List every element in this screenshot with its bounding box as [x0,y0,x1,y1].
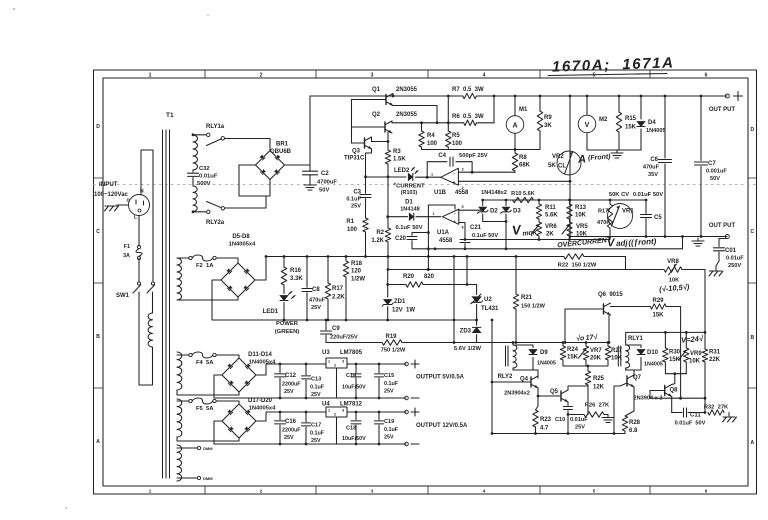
wire line y342 right [477,342,516,344]
svg-text:VR5: VR5 [576,224,588,230]
wire Q5 base [537,395,561,398]
label U3 [322,350,363,356]
wire R30 VR9 bottom [665,372,686,383]
junction dot rail y271 left [387,268,430,271]
label GBU6B [270,149,292,155]
wire Q6 collector line [611,306,651,308]
label M2 [599,117,608,123]
svg-text:(R103): (R103) [401,190,418,196]
svg-text:0.1uF 50V: 0.1uF 50V [472,233,498,239]
wire Q6 base line [564,309,604,344]
wire Q4 collector [533,370,538,378]
capacitor C17 [302,411,311,446]
svg-text:C2: C2 [321,171,329,177]
label LED1 [263,309,279,315]
capacitor C15 [375,363,384,400]
svg-text:CL: CL [558,164,566,170]
wire Q4 emitter down [536,388,539,410]
svg-text:√o 17√: √o 17√ [576,333,599,343]
svg-text:F4 5A: F4 5A [196,360,214,366]
T1 aux winding [177,258,182,300]
resistor R22 [564,254,584,259]
junction dot R8 bottom [0,0,1,1]
svg-text:C32: C32 [199,166,210,172]
junction dot U1B input node [426,176,429,179]
label 100-120Vac [94,192,129,198]
svg-text:4558: 4558 [439,238,453,244]
svg-text:R5: R5 [452,133,460,139]
label OUTPUT 5V [416,375,465,381]
svg-text:⌜CURRENT: ⌜CURRENT [393,183,425,190]
wire VR1 bottom [569,200,571,237]
wire plug to ground [117,204,129,206]
capacitor C01 [714,239,728,271]
svg-text:500V: 500V [197,181,211,187]
capacitor C13 [302,363,311,400]
label R11 [545,205,558,219]
label R26 27K [585,403,610,409]
wire 5V bridge left [214,375,406,398]
label VR2 5K [548,163,566,170]
wire C2 to top rail [309,96,311,165]
label R10 [511,191,535,197]
svg-text:ZD3: ZD3 [460,329,472,335]
svg-text:A: A [750,440,754,446]
resistor R30 [663,331,668,374]
label D9 [537,350,556,367]
svg-text:R18: R18 [351,261,363,267]
svg-text:(GREEN): (GREEN) [275,329,300,335]
label Q6 9015 [598,292,623,298]
T1 main secondary upper half [193,135,198,170]
label LED2 [394,168,410,174]
label INPUT [99,181,118,188]
wire Q5 collector [568,386,588,390]
svg-text:1N4148x2: 1N4148x2 [481,190,507,196]
label 3A [123,253,130,259]
svg-text:R10 5.6K: R10 5.6K [511,191,535,197]
svg-text:22K: 22K [709,357,721,363]
wire aux bridge right to rail [255,257,266,281]
ground below C2 [304,182,316,190]
svg-text:2N3055: 2N3055 [396,87,418,93]
wire 5V bridge right [256,364,326,375]
ground below M2 R15 D4 [611,150,623,158]
wire 12V bridge left [214,421,406,444]
resistor R11 [536,200,541,219]
svg-text:D1: D1 [405,200,413,206]
wire secondary mid section [192,170,194,186]
wire Q4 base [491,381,531,384]
label U1A [437,230,453,244]
svg-text:U1A: U1A [437,230,450,236]
capacitor C8 [302,255,312,320]
resistor R6 [464,120,477,125]
ammeter M1 [506,116,524,134]
wire BR1 right to C2 [285,164,311,166]
label RLY2a [206,220,225,226]
resistor R32 [708,410,724,415]
svg-text:D2: D2 [490,209,498,215]
label Q1 [372,87,418,93]
wire plug L down [138,216,140,246]
svg-text:1N4005x4: 1N4005x4 [249,360,277,366]
label C9 [330,326,358,341]
label 50K CV [609,192,629,198]
label R3 [393,149,406,163]
junction dots rail y256 [265,255,518,258]
junction dot R3 bottom [387,175,390,178]
junction dot x428 rail [427,255,430,271]
resistor R9 [537,95,542,150]
handwritten Vmark [511,220,538,239]
potentiometer VR1 with R17 [607,200,632,240]
label RLY1a [206,124,225,130]
vertical wire x454 [453,257,456,344]
svg-text:1: 1 [328,409,330,413]
svg-text:ZD1: ZD1 [394,299,406,305]
scan speck [13,8,209,508]
label 0.01uF 50V mid [633,192,663,198]
resistor R23 [533,410,538,434]
diode D1 [386,213,440,220]
svg-text:VR2: VR2 [552,154,564,160]
junction dots rail y249 [434,247,508,250]
capacitor C6 [659,95,672,237]
chassis ground below C01 [709,271,723,276]
svg-text:C16: C16 [285,419,297,425]
resistor R5 [446,123,451,150]
wire Q8 emitter line [650,397,706,400]
label R30 [669,350,681,364]
wire Q7 collector [626,370,634,377]
wire long rail y256 [266,256,626,258]
label M1 [519,107,528,113]
svg-text:220uF/25V: 220uF/25V [330,335,358,341]
svg-text:2N3055: 2N3055 [396,112,418,118]
resistor R7 [463,93,484,98]
capacitor C19 [375,411,384,446]
svg-text:50V: 50V [319,188,329,194]
capacitor C32 [188,173,199,176]
label C18 [342,426,366,443]
label C14 [342,373,366,391]
resistor R8 [512,150,517,173]
svg-text:12K: 12K [593,385,605,391]
resistor R20 [406,282,423,287]
label VR7 [590,348,602,362]
label Q3 [352,149,361,155]
wire U1B lower input line [458,180,571,183]
wire rail jog to y271 [625,257,627,270]
handwritten Vadj front [607,235,657,250]
svg-text:470uF: 470uF [309,298,326,304]
junction dot M1 bottom [514,148,517,151]
wire plug N up and over [141,150,153,281]
wire R24 VR7 R27 bottom [563,365,608,368]
svg-text:0.01uF: 0.01uF [570,417,588,423]
wire node line y200 [483,199,646,201]
svg-text:Q8: Q8 [670,388,679,394]
label R27 [611,348,623,362]
svg-text:5: 5 [462,205,464,209]
svg-text:4: 4 [483,73,486,79]
resistor R4 [419,123,424,150]
svg-text:4700uF: 4700uF [317,180,337,186]
wire C11 line [672,398,707,414]
wire negative rail y236 [570,236,727,238]
svg-text:C20: C20 [395,236,407,242]
title underline [548,74,667,76]
svg-text:R13: R13 [575,205,587,211]
label R16 [290,268,303,282]
svg-text:TIP31C: TIP31C [344,156,365,162]
label C16 [282,419,301,441]
potentiometer VR8 [664,264,682,275]
svg-text:R24: R24 [567,347,579,353]
chassis ground at plug [105,206,119,211]
capacitor C21 [460,240,470,249]
label R24 [567,347,579,361]
output terminal plus [725,94,729,98]
bridge rectifier BR1 [256,151,285,180]
svg-text:VR9: VR9 [690,351,702,357]
label D3 [513,209,521,215]
label Q2 [372,112,418,118]
label C19 [384,419,399,441]
wire primary bottom [139,347,153,385]
label C32 value [199,174,218,180]
vertical wire x467 to U2 [466,257,477,286]
wire RLY2 loop with D9 [512,341,533,370]
svg-text:Q2: Q2 [372,112,381,118]
label C01 [725,248,744,269]
svg-text:100: 100 [452,141,463,147]
switch SW1 pole 2 [147,282,155,293]
svg-text:POWER: POWER [276,321,299,327]
label C11 [675,413,706,427]
wire RLY1 loop with D10 [626,345,641,370]
svg-text:C10: C10 [555,417,565,423]
wire top positive rail [310,95,727,125]
svg-text:RLY2a: RLY2a [206,220,225,226]
transistor Q4 2N3904 [531,376,538,388]
svg-text:R17: R17 [598,209,608,215]
relay coil RLY2 [506,343,517,371]
svg-text:25V: 25V [575,425,585,431]
wire tap to RLY1a [193,134,206,136]
wire Q3 emitter down [366,149,372,177]
svg-text:U3: U3 [322,350,330,356]
svg-text:U4: U4 [322,402,330,408]
svg-text:6: 6 [705,73,708,79]
output terminal minus [725,235,729,239]
left row letters [96,124,100,445]
wire Q7 emitter down [625,387,634,416]
label CURRENT [393,183,425,190]
wire Q6 emitter down [608,316,611,344]
svg-text:0.01uF: 0.01uF [726,256,744,262]
svg-text:F5 5A: F5 5A [196,406,214,412]
svg-text:LM7805: LM7805 [340,350,363,356]
label R103 [401,190,418,196]
svg-text:TL431: TL431 [481,306,499,312]
svg-text:R7 0.5 3W: R7 0.5 3W [452,87,484,93]
label C2 voltage [319,188,329,194]
wire U1A input feed [427,205,455,270]
label RLY2 [498,374,513,380]
svg-text:3: 3 [462,168,464,172]
svg-text:R25: R25 [593,376,605,382]
svg-text:2200uF: 2200uF [282,382,301,388]
diode D9 [529,350,537,355]
label C17 [310,423,325,445]
svg-text:3K: 3K [544,123,552,129]
svg-text:1N4005: 1N4005 [537,361,556,367]
svg-text:R28: R28 [629,420,641,426]
svg-text:DMM: DMM [203,476,213,481]
wire meter ground line [587,149,641,151]
resistor R15 [616,95,621,150]
svg-text:2: 2 [462,186,464,190]
wire aux neg rail y320 [212,319,477,321]
svg-text:C15: C15 [384,373,394,379]
label POWER GREEN [275,321,300,335]
handwritten A front [577,152,612,166]
svg-text:U2: U2 [484,297,492,303]
svg-text:C8: C8 [312,287,320,293]
wire R26 line [568,414,608,416]
label R28 [629,420,641,434]
wire Q2 collector line [392,121,464,123]
svg-text:0.1uF 50V: 0.1uF 50V [395,225,422,231]
capacitor C4 feedback [427,157,472,177]
svg-text:820: 820 [424,274,435,280]
resistor R16 [281,255,286,285]
label 2N3904 x 2 right [634,396,663,402]
label C2 [321,171,329,177]
bottom zone numbers 1-6 [149,489,708,494]
svg-text:R20: R20 [403,274,415,280]
svg-text:35V: 35V [648,172,658,178]
svg-text:R11: R11 [545,205,556,211]
wire F5 to bridge [216,401,239,404]
svg-text:RLY1: RLY1 [628,336,643,342]
label C21 [470,225,498,239]
svg-text:LED1: LED1 [263,309,279,315]
svg-text:+: + [453,180,456,186]
wire U3 out [347,363,406,365]
ground on neg rail [692,238,704,246]
svg-text:15K: 15K [652,313,664,319]
svg-text:R8: R8 [519,155,527,161]
label D1 [400,200,420,213]
label D4 [646,120,666,134]
label C5 [654,215,662,221]
wire rail y249 [412,235,684,249]
wire Q8 collector [672,383,675,386]
bridge rectifier D5-D8 [221,263,255,297]
label R17 [597,209,610,227]
svg-text:R6 0.5 3W: R6 0.5 3W [452,114,484,120]
label R20 820 [403,274,435,280]
label F2 1A [196,263,214,269]
svg-text:4.7: 4.7 [540,426,549,432]
label C15 [384,373,399,395]
label R5 [452,133,463,147]
svg-text:5.6K: 5.6K [545,213,558,219]
12V plus terminal [405,408,419,416]
svg-text:C4: C4 [438,153,446,159]
svg-text:750 1/2W: 750 1/2W [381,348,406,354]
svg-text:R29: R29 [652,298,664,304]
transistor Q8 2N3904 [665,385,672,397]
label R13 [575,205,587,219]
diode D2 [477,200,488,222]
svg-text:SW1: SW1 [116,293,130,299]
transistor Q1 2N3055 [386,94,393,106]
svg-text:10K: 10K [689,359,701,365]
wire Q1 emitter [393,106,437,123]
resistor R28 [622,416,627,434]
handwritten OVERCURRENT [557,237,612,250]
plug pin label N [140,189,144,195]
label R23 [540,417,552,432]
label R2 [371,230,384,244]
label D5-D8 [229,234,257,248]
svg-text:C11: C11 [690,413,701,419]
wire Q8 base [650,391,665,399]
label C2 value [317,180,337,186]
svg-text:0.01uF: 0.01uF [199,174,218,180]
label ZD1 [392,299,415,314]
resistor R19 [382,340,477,345]
T1 core lines [163,130,170,478]
svg-text:R26 27K: R26 27K [585,403,610,409]
svg-text:VR1: VR1 [622,209,634,215]
wire U1B upper input line [458,171,515,174]
wire tap to RLY2a [193,211,206,213]
svg-text:R1: R1 [346,219,354,225]
capacitor C11 [684,408,687,417]
bottom border zone ticks [205,486,650,494]
label R8 [519,155,531,169]
resistor R29 [650,304,666,309]
svg-text:20K: 20K [590,356,602,362]
switch SW1 pole 1 [133,282,141,293]
label U2 [481,297,499,312]
resistor R17b 2.2K [325,255,330,320]
svg-text:25V: 25V [311,392,321,398]
svg-text:3: 3 [371,73,374,79]
svg-text:C: C [750,229,754,235]
transistor Q5 2N3904 [561,390,568,402]
capacitor C2 [303,165,318,182]
svg-text:2.2K: 2.2K [332,295,345,301]
svg-text:D: D [750,127,754,133]
svg-text:68K: 68K [519,163,531,169]
svg-text:C9: C9 [332,326,340,332]
svg-text:15K: 15K [625,125,637,131]
junction dots bottom line [534,432,569,435]
relay coil RLY1 [618,332,629,370]
label Q7 [633,375,642,381]
svg-text:VR6: VR6 [545,224,557,230]
svg-text:U1B: U1B [434,190,447,196]
handwritten title 1670A; 1671A [552,54,675,75]
wire base bus [352,100,387,144]
svg-text:10K: 10K [575,213,587,219]
